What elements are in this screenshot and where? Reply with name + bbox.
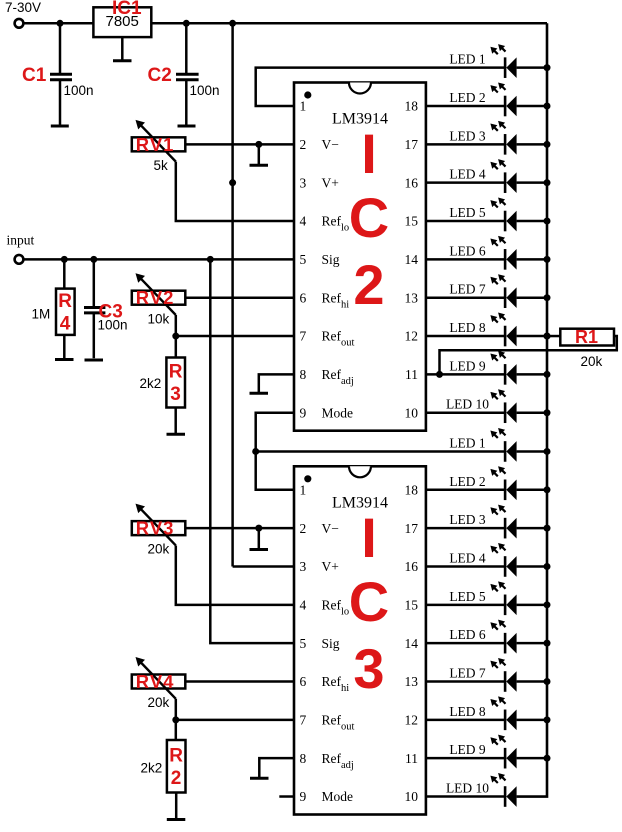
svg-text:16: 16 (405, 175, 419, 190)
potentiometer RV1 5k (132, 120, 186, 173)
capacitor C2 100n (148, 23, 220, 125)
svg-text:LED 1: LED 1 (449, 435, 485, 450)
ground: IC3 pin8 (250, 777, 269, 780)
svg-text:LED 1: LED 1 (449, 52, 485, 67)
svg-text:100n: 100n (190, 83, 220, 98)
svg-text:7: 7 (300, 329, 307, 344)
junction: bus to R1 (544, 333, 551, 340)
svg-text:6: 6 (300, 674, 307, 689)
svg-text:RV1: RV1 (136, 134, 175, 155)
junction: V+ to IC2 pin3 (229, 179, 236, 186)
junction: pin2 ground tap (255, 141, 262, 148)
svg-text:7-30V: 7-30V (5, 0, 41, 15)
svg-text:1M: 1M (32, 307, 51, 322)
wire: supply terminal to IC1 input (24, 22, 95, 25)
LED 5 (group 1) (426, 198, 551, 232)
svg-text:20k: 20k (148, 542, 170, 557)
svg-text:2: 2 (353, 253, 384, 316)
ground: IC2 pin2 (250, 164, 269, 167)
LED 6 (group 2) (426, 620, 551, 654)
svg-text:3: 3 (353, 637, 384, 700)
svg-text:LED 6: LED 6 (449, 243, 486, 258)
svg-text:2: 2 (300, 137, 307, 152)
LED 4 (group 1) (426, 159, 551, 193)
LED 7 (group 2) (426, 658, 551, 692)
op-amp-style IC box U3 LM3914 (IC3) (294, 466, 426, 814)
ground: IC1 (113, 59, 132, 62)
svg-text:2: 2 (171, 768, 182, 789)
svg-text:Mode: Mode (322, 405, 354, 420)
wire: pin2 ground lead (258, 144, 261, 164)
LED 9 (group 1) (426, 351, 551, 385)
junction: signal bus tap (207, 256, 214, 263)
terminal: signal input (15, 255, 24, 264)
svg-text:5: 5 (300, 252, 307, 267)
svg-text:2k2: 2k2 (140, 376, 162, 391)
LED 6 (group 1) (426, 236, 551, 270)
svg-text:LED 7: LED 7 (449, 666, 486, 681)
LED 9 (group 2) (426, 735, 551, 769)
svg-text:R: R (169, 745, 183, 766)
svg-text:18: 18 (405, 483, 419, 498)
svg-text:20k: 20k (148, 695, 170, 710)
wire: cascade node to IC3 pin1 (256, 451, 294, 489)
wire: input to IC2 pin5 (Sig) (24, 258, 295, 261)
wire: cascade node to 2nd LED1 row (256, 450, 505, 453)
svg-text:7: 7 (300, 713, 307, 728)
junction: C2 tap (183, 20, 190, 27)
junction: C3 tap (90, 256, 97, 263)
svg-text:Sig: Sig (322, 636, 340, 651)
wire: IC3 pin2 ground lead (258, 528, 261, 548)
LED 8 (group 1) (426, 313, 551, 347)
LED 2 (group 1) (426, 83, 551, 117)
resistor R2 2k2 (141, 740, 186, 793)
ground: R4 (55, 358, 74, 361)
junction: IC3 pin2 ground tap (255, 525, 262, 532)
svg-text:R1: R1 (575, 327, 598, 347)
LED 10 (group 1) (426, 389, 551, 423)
terminal: supply input (15, 19, 24, 28)
svg-text:R: R (169, 362, 183, 383)
junction: RV4/R2/pin7 (172, 716, 179, 723)
svg-text:12: 12 (405, 713, 419, 728)
junction: RV2/R3/pin7 (172, 333, 179, 340)
svg-text:C: C (349, 186, 389, 249)
capacitor C3 100n (84, 259, 128, 358)
svg-text:14: 14 (405, 252, 419, 267)
wire: R4 bottom lead (63, 335, 66, 358)
svg-text:V+: V+ (322, 559, 339, 574)
wire: RV4 to IC3 pin6 (185, 680, 294, 683)
svg-text:I: I (361, 506, 377, 569)
svg-text:4: 4 (300, 214, 307, 229)
svg-text:V−: V− (322, 521, 339, 536)
svg-text:LM3914: LM3914 (332, 111, 388, 128)
svg-text:20k: 20k (581, 354, 603, 369)
svg-text:17: 17 (405, 137, 419, 152)
LED 10 (group 2) (426, 773, 517, 807)
svg-text:2k2: 2k2 (141, 761, 163, 776)
wire: IC1 ground lead (121, 37, 124, 60)
svg-text:V−: V− (322, 137, 339, 152)
svg-text:6: 6 (300, 290, 307, 305)
regulator IC1 7805 (93, 0, 151, 37)
wire: IC3 pin9 stub (279, 795, 294, 798)
svg-text:9: 9 (300, 789, 307, 804)
resistor R4 1M (32, 289, 75, 335)
svg-text:3: 3 (170, 384, 181, 405)
svg-text:13: 13 (405, 674, 419, 689)
wire: IC2 pin9 (Mode) to cascade node (256, 413, 294, 452)
svg-text:18: 18 (405, 99, 419, 114)
svg-text:R: R (58, 291, 72, 312)
LED 2 (group 2) (426, 466, 551, 500)
svg-text:1: 1 (300, 483, 307, 498)
resistor R1 20k (560, 327, 614, 369)
LED 1 (group 2) (449, 428, 550, 462)
wire: bus to R1 (547, 335, 560, 338)
svg-text:C2: C2 (148, 65, 172, 86)
svg-text:13: 13 (405, 290, 419, 305)
svg-text:LED 4: LED 4 (449, 550, 486, 565)
svg-text:5k: 5k (154, 158, 169, 173)
wire: RV3 to IC3 pin2 (V-) (185, 527, 294, 530)
wire: RV1 to IC2 pin2 (V-) (185, 143, 294, 146)
svg-text:LED 5: LED 5 (449, 589, 486, 604)
IC3 pin numbers and labels (300, 483, 419, 805)
junction: R4 tap (61, 256, 68, 263)
wire: R1 return to IC2 pin11 (LED9 row) (440, 336, 617, 374)
wire: RV2 to IC2 pin6 (185, 296, 294, 299)
svg-text:11: 11 (405, 367, 418, 382)
IC2 big red designator (349, 122, 389, 316)
svg-text:LM3914: LM3914 (332, 494, 388, 511)
wire: V+ bus vertical (231, 23, 234, 566)
ground: C2 (178, 125, 196, 128)
svg-text:Sig: Sig (322, 252, 340, 267)
wire: V+ to IC3 pin3 (233, 565, 294, 568)
svg-text:10: 10 (405, 789, 419, 804)
svg-text:100n: 100n (64, 83, 94, 98)
svg-text:LED 9: LED 9 (449, 358, 486, 373)
svg-text:3: 3 (300, 559, 307, 574)
wire: R3 bottom lead (174, 408, 177, 434)
wire: node to IC3 pin7 (176, 719, 294, 722)
svg-text:17: 17 (405, 521, 419, 536)
svg-text:LED 9: LED 9 (449, 742, 486, 757)
LED 4 (group 2) (426, 543, 551, 577)
ground: C3 (85, 359, 104, 362)
ground: IC3 pin2 (250, 548, 269, 551)
op-amp-style IC box U2 LM3914 (IC2) (294, 83, 426, 431)
svg-text:15: 15 (405, 598, 419, 613)
svg-text:LED 6: LED 6 (449, 627, 486, 642)
capacitor C1 100n (22, 23, 94, 125)
wire: IC2 pin8 to ground (259, 374, 294, 392)
ground: R2 (167, 818, 186, 821)
svg-text:LED 3: LED 3 (449, 512, 486, 527)
svg-text:2: 2 (300, 521, 307, 536)
svg-text:RV2: RV2 (136, 287, 175, 308)
svg-text:4: 4 (300, 598, 307, 613)
junction: R1 to LED9 wire (436, 371, 443, 378)
svg-text:5: 5 (300, 636, 307, 651)
potentiometer RV2 10k (132, 273, 186, 326)
wire: R2 bottom lead (175, 793, 178, 819)
wire: node to IC2 pin7 (176, 335, 294, 338)
LED 7 (group 1) (426, 274, 551, 308)
svg-text:input: input (7, 233, 35, 248)
resistor R3 2k2 (140, 358, 186, 408)
IC3 big red designator (349, 506, 389, 700)
svg-text:4: 4 (60, 313, 71, 334)
svg-text:16: 16 (405, 559, 419, 574)
potentiometer RV3 20k (132, 504, 186, 557)
svg-text:Mode: Mode (322, 789, 354, 804)
svg-text:LED 5: LED 5 (449, 205, 486, 220)
wire: RV1 wiper to IC2 pin4 (176, 162, 294, 221)
svg-text:8: 8 (300, 367, 307, 382)
wire: signal bus to IC3 pin5 (210, 259, 294, 643)
potentiometer RV4 20k (132, 657, 186, 710)
ground: C1 (51, 125, 69, 128)
svg-text:11: 11 (405, 751, 418, 766)
svg-text:LED 8: LED 8 (449, 704, 486, 719)
svg-text:LED 4: LED 4 (449, 167, 486, 182)
svg-text:8: 8 (300, 751, 307, 766)
ground: R3 (167, 433, 186, 436)
wire: RV3 wiper to IC3 pin4 (176, 545, 294, 604)
LED 3 (group 1) (426, 121, 551, 155)
LED 3 (group 2) (426, 505, 551, 539)
wire: RV2 wiper to pin7 node (175, 315, 178, 336)
junction: cascade node (252, 448, 259, 455)
wire: R4 top lead (63, 259, 66, 288)
LED 8 (group 2) (426, 696, 551, 730)
svg-text:12: 12 (405, 329, 419, 344)
svg-text:C: C (349, 570, 389, 633)
svg-text:LED 10: LED 10 (446, 397, 489, 412)
svg-text:I: I (361, 122, 377, 185)
svg-text:LED 10: LED 10 (446, 781, 489, 796)
svg-text:15: 15 (405, 214, 419, 229)
svg-text:LED 3: LED 3 (449, 128, 486, 143)
svg-text:10k: 10k (148, 311, 170, 326)
wire: R2 top lead (175, 720, 178, 740)
junction: V+ bus tap (229, 20, 236, 27)
svg-text:9: 9 (300, 405, 307, 420)
LED 1 (group 1) (449, 44, 550, 78)
svg-text:LED 2: LED 2 (449, 90, 485, 105)
ground: IC2 pin8 (250, 392, 269, 395)
wire: R3 top lead (175, 336, 178, 357)
svg-text:RV3: RV3 (136, 518, 175, 539)
wire: IC2 pin1 to LED1 row (256, 68, 505, 106)
svg-text:RV4: RV4 (136, 671, 175, 692)
junction: C1 tap (57, 20, 64, 27)
IC2 pin numbers and labels (300, 99, 419, 421)
LED 5 (group 2) (426, 581, 551, 615)
wire: RV4 wiper to pin7 node (175, 699, 178, 720)
svg-text:100n: 100n (98, 318, 128, 333)
svg-text:1: 1 (300, 99, 307, 114)
svg-text:LED 2: LED 2 (449, 474, 485, 489)
svg-text:V+: V+ (322, 175, 339, 190)
svg-text:LED 7: LED 7 (449, 282, 486, 297)
wire: IC1 output to LED bus corner (151, 22, 547, 25)
svg-text:10: 10 (405, 405, 419, 420)
svg-text:3: 3 (300, 175, 307, 190)
svg-text:C1: C1 (22, 65, 47, 86)
wire: LED anode bus (517, 23, 547, 796)
svg-text:14: 14 (405, 636, 419, 651)
wire: IC3 pin8 to ground (259, 758, 294, 777)
svg-text:LED 8: LED 8 (449, 320, 486, 335)
svg-text:7805: 7805 (106, 13, 139, 30)
